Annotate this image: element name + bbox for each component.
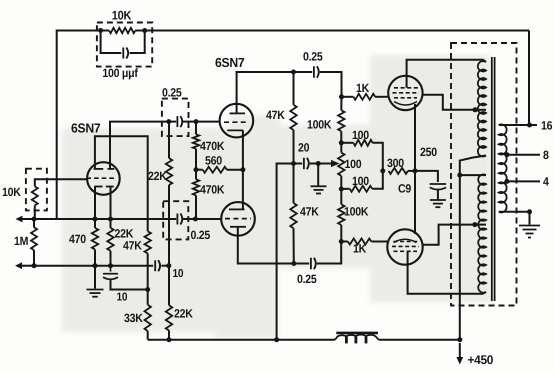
label 470K upper xyxy=(200,139,225,153)
svg-text:1M: 1M xyxy=(14,234,28,248)
tube V4 output upper xyxy=(388,76,422,110)
tube V3 grid dashes xyxy=(225,218,251,220)
wire 20 ground stub xyxy=(317,164,319,186)
label 100uuf xyxy=(102,66,138,80)
node cathode2 xyxy=(108,217,113,222)
label 10K feedback xyxy=(112,9,132,23)
capacitor C9 250 xyxy=(430,184,447,190)
arrow +450 xyxy=(456,343,463,365)
label 10 bypass xyxy=(117,292,128,304)
svg-text:6SN7: 6SN7 xyxy=(215,55,245,70)
node tap 16 xyxy=(527,123,532,128)
svg-text:560: 560 xyxy=(205,154,222,168)
dashed box feedback xyxy=(97,23,152,67)
wire bottom rail right xyxy=(379,339,460,341)
tube V5 grid dashes xyxy=(392,242,419,252)
node input xyxy=(32,217,37,222)
tube V4 cathode arc xyxy=(394,102,417,106)
svg-text:C9: C9 xyxy=(398,182,412,196)
wire 560 stubs xyxy=(196,169,243,171)
label +450 xyxy=(468,353,494,367)
wire cathode to tube5 xyxy=(414,171,416,234)
svg-text:10K: 10K xyxy=(2,185,21,199)
node B+ bottom xyxy=(457,337,462,342)
capacitor C 20 xyxy=(304,158,309,170)
arrow input lower xyxy=(15,262,32,269)
wire V1 plate lead A xyxy=(110,122,169,169)
svg-text:33K: 33K xyxy=(124,311,143,325)
node screen tap upper xyxy=(473,107,478,112)
node 1M bottom xyxy=(32,263,37,268)
label 1M xyxy=(14,234,28,248)
node divider bottom xyxy=(339,187,344,192)
tube V5 cathode arc xyxy=(394,239,417,242)
wire secondary common xyxy=(499,211,530,213)
node 470 bottom xyxy=(93,263,98,268)
svg-text:0.25: 0.25 xyxy=(162,86,182,100)
label 100 bottom xyxy=(352,174,369,188)
svg-text:470: 470 xyxy=(69,232,86,246)
label 1K upper xyxy=(356,81,370,95)
wire 250 ground stub xyxy=(437,189,439,200)
wire B+ vertical xyxy=(459,175,461,340)
node plate A xyxy=(166,119,171,124)
wire 33K stubs xyxy=(147,290,149,340)
label C9 xyxy=(398,182,412,196)
svg-text:0.25: 0.25 xyxy=(303,50,323,64)
resistor R 100K upper xyxy=(338,110,344,131)
wire 22K upper stubs xyxy=(168,122,170,266)
wire rail to node xyxy=(183,218,196,220)
label 100K upper xyxy=(307,118,332,132)
node 33K top xyxy=(145,287,150,292)
svg-text:10K: 10K xyxy=(112,9,132,23)
wire 1K lower stubs xyxy=(341,241,388,243)
label 0.25 lower-left xyxy=(191,228,211,242)
label 250 xyxy=(420,145,437,159)
wire tap 8 xyxy=(507,154,540,156)
wire 20-line left drop xyxy=(277,164,294,340)
wire grid tube1 xyxy=(35,179,87,186)
capacitor C-fb 100uuf xyxy=(123,48,128,59)
node grid2 xyxy=(194,119,199,124)
wire ground rail xyxy=(18,265,154,267)
resistor R 1M xyxy=(31,227,37,250)
label 300 xyxy=(387,156,404,170)
node tap 8 xyxy=(505,152,510,157)
wire V1 plate lead B xyxy=(95,136,148,231)
svg-text:0.25: 0.25 xyxy=(297,272,317,286)
wire tap 16 xyxy=(499,124,537,126)
node center tap xyxy=(457,173,462,178)
dashed box input 10K xyxy=(26,169,47,211)
label 8 xyxy=(543,148,549,162)
label 47K plate xyxy=(123,239,142,253)
resistor R 470K lower xyxy=(193,179,199,195)
tube V1 plate bars xyxy=(94,168,115,170)
resistor R 47K mid-lower xyxy=(290,203,296,228)
svg-text:470K: 470K xyxy=(200,183,225,197)
node bottom 47K xyxy=(291,261,296,266)
label 100 top xyxy=(352,128,369,142)
wire rail cap to node xyxy=(161,265,168,267)
wire common ground stub xyxy=(529,212,531,225)
tube V1 6SN7 xyxy=(87,162,120,195)
tube V3 plate bar xyxy=(230,226,246,228)
wire 470K upper stubs xyxy=(195,122,197,170)
wire 1M stubs xyxy=(33,219,35,266)
svg-text:20: 20 xyxy=(298,141,310,155)
tube V2 grid dashes xyxy=(224,121,249,123)
tube V4 grid dashes xyxy=(393,88,420,98)
node cathode1 xyxy=(93,217,98,222)
tube V2 cathode bar xyxy=(227,129,243,131)
arrow 20 into divider xyxy=(331,160,340,167)
resistor R 470 xyxy=(92,228,98,250)
resistor R 33K xyxy=(145,305,151,331)
tube V2 6SN7a xyxy=(220,104,254,138)
wire node to cap upper xyxy=(169,121,176,123)
node rail right xyxy=(166,263,171,268)
node screen tap lower xyxy=(472,222,477,227)
svg-text:47K: 47K xyxy=(266,108,285,122)
capacitor C 0.25 bottom xyxy=(311,258,316,270)
svg-text:10: 10 xyxy=(173,268,184,280)
label 47K mid-lower xyxy=(300,205,319,219)
wire bottom rail left xyxy=(148,339,335,341)
wire screen tap stub lower xyxy=(475,224,486,226)
resistor R 47K plate xyxy=(145,231,151,253)
svg-text:22K: 22K xyxy=(174,307,193,321)
svg-text:22K: 22K xyxy=(148,169,167,183)
svg-text:250: 250 xyxy=(420,145,437,159)
resistor R 22K lower xyxy=(166,305,172,330)
wire cathode link tubes23 xyxy=(242,130,244,209)
wire center tap to lower winding xyxy=(460,174,486,176)
choke filament winding arches xyxy=(335,335,379,340)
wire 20 cap left xyxy=(294,163,303,165)
wire top cap to corner xyxy=(320,72,342,97)
wire feedback right drop xyxy=(528,31,530,126)
node top 47K xyxy=(291,70,296,75)
resistor R 22K cathode xyxy=(107,228,113,251)
resistor R-fb 10K xyxy=(109,28,135,33)
transformer secondary winding xyxy=(499,124,507,212)
label 20 xyxy=(298,141,310,155)
label 4 xyxy=(543,175,549,189)
wire cathode to tube4 xyxy=(414,104,416,171)
resistor R 300 xyxy=(389,168,408,174)
resistor R 47K mid-upper xyxy=(290,105,296,130)
wire V4 screen xyxy=(423,95,476,110)
wire 20 to divider xyxy=(318,163,331,165)
svg-text:8: 8 xyxy=(543,148,549,162)
node 20 wire mid xyxy=(291,161,296,166)
wire V4 plate xyxy=(407,60,486,88)
node 1K lower xyxy=(339,239,344,244)
wire screen tap stub upper xyxy=(475,109,486,111)
wire V2 plate xyxy=(237,72,294,113)
svg-text:10: 10 xyxy=(117,292,128,304)
svg-text:100K: 100K xyxy=(307,118,332,132)
svg-text:100: 100 xyxy=(345,157,362,171)
svg-text:100K: 100K xyxy=(344,205,369,219)
svg-text:+450: +450 xyxy=(468,353,494,367)
wire 47K mid-lower stubs xyxy=(293,164,295,264)
capacitor C bypass cathode xyxy=(103,266,118,280)
tube V3 6SN7b xyxy=(221,202,255,236)
label 33K xyxy=(124,311,143,325)
wire 470K lower stubs xyxy=(195,170,197,219)
node 1K upper xyxy=(339,94,344,99)
node divider top xyxy=(339,140,344,145)
node fb-right xyxy=(142,28,147,33)
ground left xyxy=(87,290,104,297)
wire 470 stubs xyxy=(94,219,96,266)
wire V3 plate xyxy=(238,227,294,264)
wire 100K lower stubs xyxy=(340,189,342,242)
label 470 xyxy=(69,232,86,246)
wire 22K lower stubs xyxy=(168,266,170,340)
wire fb resistor stubs xyxy=(101,30,145,32)
wire tap 4 xyxy=(507,180,540,182)
capacitor C-fb 100uuf branch xyxy=(101,31,145,54)
wire bottom cap to corner xyxy=(317,242,341,264)
label 100K lower xyxy=(344,205,369,219)
wire 100 mid stubs xyxy=(340,143,342,189)
capacitor C-coupling2 0.25 xyxy=(177,214,182,225)
node tap 4 xyxy=(505,179,510,184)
svg-text:470K: 470K xyxy=(200,139,225,153)
label 1K lower xyxy=(353,242,367,256)
resistor R 100 top xyxy=(353,140,372,146)
label 470K lower xyxy=(200,183,225,197)
wire cathode rail xyxy=(18,218,177,220)
wire 100 top path xyxy=(341,143,383,171)
node 20 ground xyxy=(316,161,321,166)
node 560 left xyxy=(194,167,199,172)
tube V3 cathode bar xyxy=(229,208,245,210)
wire 10K to rail xyxy=(34,205,36,219)
svg-text:0.25: 0.25 xyxy=(191,228,211,242)
label 100 mid xyxy=(345,157,362,171)
wire primary center tap xyxy=(460,156,486,176)
resistor R 22K upper xyxy=(166,158,172,185)
svg-text:1K: 1K xyxy=(356,81,370,95)
node 22K lower bottom xyxy=(167,337,172,342)
label 6SN7 tube2 xyxy=(215,55,245,70)
wire V5 screen xyxy=(423,225,475,245)
wire 47K mid-upper stubs xyxy=(293,72,295,164)
node secondary common xyxy=(527,209,532,214)
node 20-line bottom xyxy=(274,337,279,342)
svg-text:47K: 47K xyxy=(300,205,319,219)
dashed box 0.25 lower xyxy=(163,201,188,239)
capacitor C-coupling1 0.25 xyxy=(177,116,182,127)
ground secondary xyxy=(519,226,540,238)
wire 300 right xyxy=(408,170,415,172)
wire 1K upper stubs xyxy=(342,96,389,98)
wire bottom cap xyxy=(294,263,309,265)
svg-text:100 μμf: 100 μμf xyxy=(102,66,138,80)
resistor R 560 xyxy=(203,167,227,173)
svg-text:100: 100 xyxy=(352,128,369,142)
node coupling2 out xyxy=(193,217,198,222)
dashed box 0.25 upper xyxy=(162,99,189,137)
wire ground stub left xyxy=(94,266,96,289)
svg-text:16: 16 xyxy=(541,119,553,133)
resistor R-in 10K xyxy=(32,186,38,205)
transformer primary lower winding xyxy=(478,174,486,292)
wire 22K stubs xyxy=(110,219,112,266)
resistor R 100 bottom xyxy=(350,186,373,192)
label 560 xyxy=(205,154,222,168)
shaded scan background patches xyxy=(62,55,491,338)
ground 250cap xyxy=(430,200,446,207)
resistor R 470K upper xyxy=(193,134,199,149)
resistor R 100K lower xyxy=(338,204,344,225)
wire feedback top to output xyxy=(145,30,529,32)
wire top cap xyxy=(294,71,313,73)
wire cap to grid2 node xyxy=(183,121,196,123)
capacitor C 10 rail xyxy=(155,260,160,271)
svg-text:4: 4 xyxy=(543,175,549,189)
label 22K upper xyxy=(148,169,167,183)
choke core bar xyxy=(336,332,378,335)
label 22K cathode xyxy=(115,227,134,241)
node 560 right xyxy=(240,167,245,172)
choke winding teardrops xyxy=(346,337,366,344)
resistor R 1K lower xyxy=(348,239,372,245)
wire 20 cap right xyxy=(310,163,318,165)
transformer core xyxy=(492,57,495,301)
wire 47K to 33K xyxy=(147,253,149,289)
wire cathode to 250cap xyxy=(415,171,438,182)
resistor R 1K upper xyxy=(353,94,375,100)
ground 20cap xyxy=(311,186,327,193)
wire 100K upper stubs xyxy=(340,97,342,143)
arrow input upper xyxy=(16,216,33,223)
node fb-left xyxy=(98,28,103,33)
tube V1 cathode bars xyxy=(94,186,114,188)
wire feedback top-left xyxy=(57,31,101,220)
label 47K mid-upper xyxy=(266,108,285,122)
dashed box transformer xyxy=(451,43,517,306)
wire grid3 to tube3 xyxy=(195,218,221,220)
label 16 xyxy=(541,119,553,133)
node cathode output xyxy=(413,168,418,173)
svg-text:6SN7: 6SN7 xyxy=(71,121,101,136)
label 22K lower xyxy=(174,307,193,321)
label 0.25 bottom xyxy=(297,272,317,286)
tube V5 output lower xyxy=(387,229,422,264)
label 10K input xyxy=(2,185,21,199)
wire 100 bottom path xyxy=(341,171,383,189)
tube V1 grid dashes xyxy=(87,177,115,179)
wire bypass to 33K xyxy=(111,278,148,289)
label 0.25 upper-left xyxy=(162,86,182,100)
tube V2 plate bar xyxy=(230,112,246,114)
wire V1 cathode leads xyxy=(95,187,111,220)
label 10 right of cap xyxy=(173,268,184,280)
transformer primary upper winding xyxy=(478,61,486,156)
label 0.25 top xyxy=(303,50,323,64)
resistor R 100 mid xyxy=(338,153,344,176)
label 6SN7 tube1 xyxy=(71,121,101,136)
svg-text:47K: 47K xyxy=(123,239,142,253)
node 300 left xyxy=(380,168,385,173)
wire V5 plate xyxy=(408,251,486,293)
wire grid2 to tube2 xyxy=(196,121,220,123)
node 22K bottom xyxy=(108,263,113,268)
capacitor C 0.25 top xyxy=(314,66,319,78)
